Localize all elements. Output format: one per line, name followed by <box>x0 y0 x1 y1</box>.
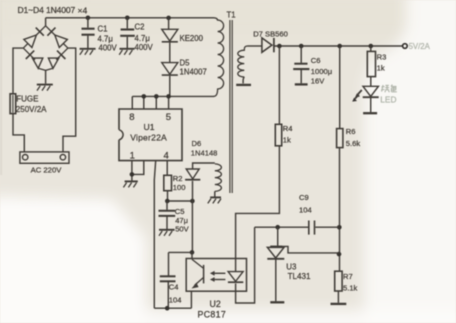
svg-text:4: 4 <box>164 151 169 162</box>
svg-text:4.7μ: 4.7μ <box>98 35 113 44</box>
svg-text:400V: 400V <box>135 43 154 52</box>
svg-text:C5: C5 <box>175 207 185 216</box>
svg-text:T1: T1 <box>227 10 236 19</box>
svg-text:16V: 16V <box>311 77 325 86</box>
svg-text:×4: ×4 <box>78 6 88 16</box>
svg-text:C6: C6 <box>311 56 321 65</box>
svg-text:LED: LED <box>380 94 396 104</box>
svg-text:R4: R4 <box>283 124 293 133</box>
svg-text:4.7μ: 4.7μ <box>135 34 150 43</box>
svg-text:5V/2A: 5V/2A <box>409 42 431 51</box>
svg-text:U3: U3 <box>286 263 297 272</box>
svg-text:C1: C1 <box>98 25 108 34</box>
svg-text:1N4148: 1N4148 <box>191 149 218 158</box>
svg-text:C2: C2 <box>135 23 145 32</box>
svg-text:5.1k: 5.1k <box>343 283 358 292</box>
svg-text:1N4007: 1N4007 <box>180 68 207 77</box>
svg-text:R3: R3 <box>377 53 387 62</box>
svg-text:FUGE: FUGE <box>16 94 38 103</box>
svg-text:1: 1 <box>130 151 135 162</box>
svg-text:8: 8 <box>129 112 134 123</box>
svg-text:50V: 50V <box>175 225 189 234</box>
svg-text:AC 220V: AC 220V <box>31 165 63 174</box>
svg-text:R2: R2 <box>173 174 183 183</box>
svg-text:TL431: TL431 <box>288 272 311 281</box>
svg-text:U1: U1 <box>144 122 155 132</box>
svg-text:250V/2A: 250V/2A <box>16 105 47 114</box>
svg-text:U2: U2 <box>210 299 221 309</box>
svg-text:R7: R7 <box>343 272 353 281</box>
svg-text:100: 100 <box>173 183 186 192</box>
svg-text:1k: 1k <box>377 64 385 73</box>
svg-text:1k: 1k <box>283 136 291 145</box>
svg-text:C9: C9 <box>299 193 309 202</box>
svg-text:5.6k: 5.6k <box>346 139 361 148</box>
svg-text:1000μ: 1000μ <box>311 67 332 76</box>
svg-text:R6: R6 <box>346 127 356 136</box>
svg-text:KE200: KE200 <box>180 34 204 43</box>
svg-text:D6: D6 <box>192 139 202 148</box>
svg-text:C4: C4 <box>169 283 179 292</box>
svg-text:104: 104 <box>169 295 182 304</box>
svg-text:D1~D4 1N4007: D1~D4 1N4007 <box>18 5 76 15</box>
svg-text:Viper22A: Viper22A <box>130 133 167 143</box>
svg-text:D5: D5 <box>180 59 191 68</box>
svg-text:D7 SB560: D7 SB560 <box>253 30 288 39</box>
svg-text:5: 5 <box>166 112 171 123</box>
svg-text:400V: 400V <box>99 43 118 52</box>
svg-text:104: 104 <box>299 205 312 214</box>
svg-text:PC817: PC817 <box>198 310 227 320</box>
